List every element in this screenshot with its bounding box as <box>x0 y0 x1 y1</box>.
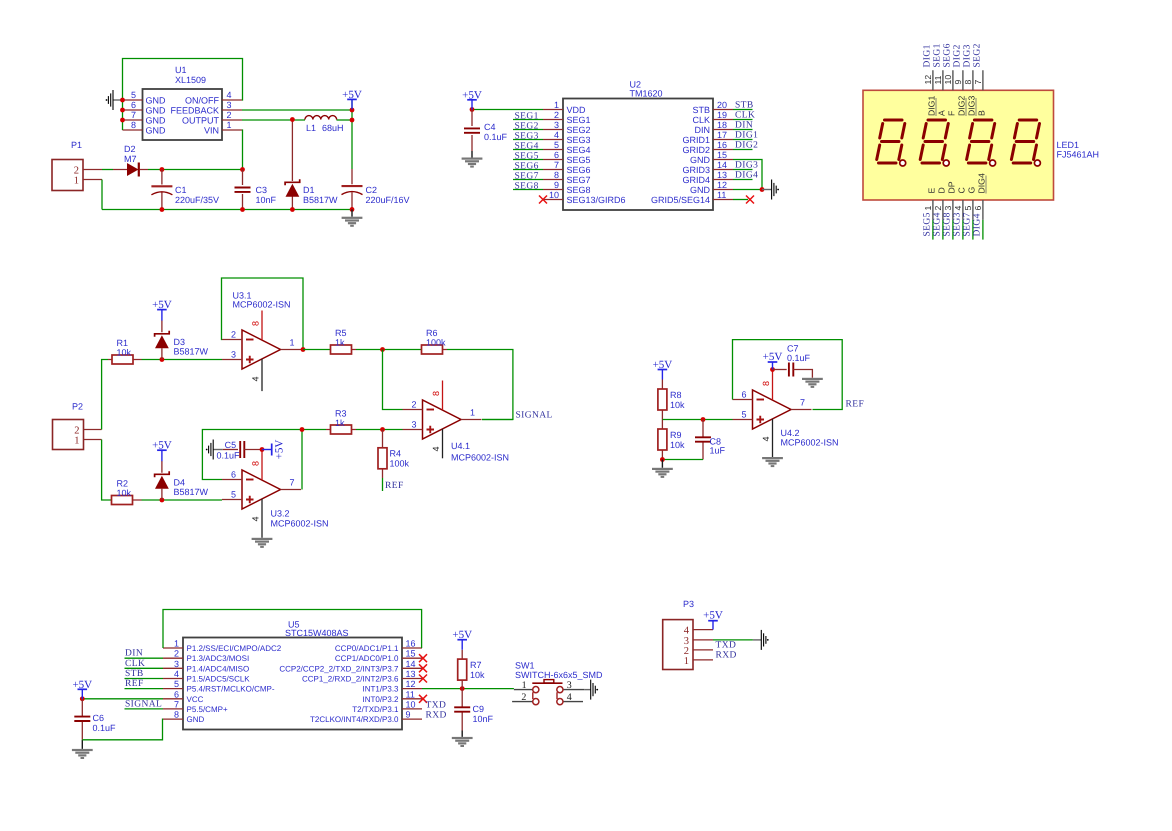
label U4.1 <box>451 441 509 463</box>
svg-text:P5.5/CMP+: P5.5/CMP+ <box>187 705 228 714</box>
svg-text:SEG5: SEG5 <box>567 155 591 165</box>
junction <box>701 417 706 422</box>
svg-text:D2: D2 <box>124 144 136 154</box>
svg-text:0.1uF: 0.1uF <box>93 723 117 733</box>
svg-text:6: 6 <box>554 150 559 160</box>
svg-text:STB: STB <box>735 101 754 111</box>
svg-text:1: 1 <box>554 100 559 110</box>
svg-text:4: 4 <box>174 669 179 679</box>
svg-text:12: 12 <box>717 180 727 190</box>
svg-text:SEG7: SEG7 <box>515 171 539 181</box>
svg-text:5: 5 <box>963 206 973 211</box>
svg-text:SEG1: SEG1 <box>567 115 591 125</box>
svg-text:10: 10 <box>406 699 416 709</box>
capacitor C5 0.1uF <box>217 440 263 460</box>
svg-text:T2CLKO/INT4/RXD/P3.0: T2CLKO/INT4/RXD/P3.0 <box>310 715 399 724</box>
svg-text:9: 9 <box>406 710 411 720</box>
wire net DIG4 <box>733 179 753 181</box>
power +5V at P3 pin4 <box>703 610 723 630</box>
wire net SEG3 <box>513 139 543 141</box>
svg-text:DIG3: DIG3 <box>967 96 977 116</box>
wire U4.2 feedback loop REF <box>733 340 843 410</box>
svg-text:DIG4: DIG4 <box>973 213 983 236</box>
wire P1.2 to D2 <box>102 169 113 171</box>
svg-text:2: 2 <box>174 649 179 659</box>
wire R5 to R6 <box>356 349 421 351</box>
svg-text:+5V: +5V <box>152 299 172 311</box>
resistor R3 1k <box>326 409 356 435</box>
no-connect U5 pin14 <box>419 664 427 672</box>
svg-text:10k: 10k <box>117 348 132 358</box>
svg-text:SEG2: SEG2 <box>567 125 591 135</box>
svg-text:GND: GND <box>690 185 711 195</box>
svg-text:GRID2: GRID2 <box>682 145 710 155</box>
svg-text:DP: DP <box>947 181 957 193</box>
svg-text:2: 2 <box>227 110 232 120</box>
junction <box>290 117 295 122</box>
svg-text:DIG2: DIG2 <box>953 44 963 67</box>
svg-text:+5V: +5V <box>342 89 362 101</box>
wire R1 to U3.1 +in <box>142 359 223 361</box>
svg-text:GND: GND <box>146 126 167 136</box>
connector P2 <box>53 402 102 450</box>
svg-text:B5817W: B5817W <box>174 487 209 497</box>
svg-text:DIN: DIN <box>125 649 143 659</box>
svg-text:SWITCH-6x6x5_SMD: SWITCH-6x6x5_SMD <box>515 670 603 680</box>
junction <box>760 187 765 192</box>
wire R3 to U4.1 +in <box>356 429 403 431</box>
svg-text:3: 3 <box>231 350 236 360</box>
svg-text:6: 6 <box>174 689 179 699</box>
svg-text:P2: P2 <box>72 402 83 412</box>
junction <box>120 108 125 113</box>
svg-text:+5V: +5V <box>763 351 783 363</box>
wire VIN down <box>241 130 244 170</box>
svg-text:3: 3 <box>227 100 232 110</box>
svg-text:DIG1: DIG1 <box>923 44 933 67</box>
svg-text:1k: 1k <box>335 418 345 428</box>
junction <box>160 498 165 503</box>
svg-text:P5.4/RST/MCLKO/CMP-: P5.4/RST/MCLKO/CMP- <box>187 685 275 694</box>
wire pin8 to +5V node <box>261 449 263 452</box>
svg-text:4: 4 <box>251 516 261 521</box>
wire net SEG4 <box>513 149 543 151</box>
svg-text:P1.5/ADC5/SCLK: P1.5/ADC5/SCLK <box>187 675 251 684</box>
svg-text:P1.2/SS/ECI/CMPO/ADC2: P1.2/SS/ECI/CMPO/ADC2 <box>187 644 282 653</box>
op-amp U4.2 MCP6002-ISN <box>733 371 812 458</box>
svg-text:6: 6 <box>973 206 983 211</box>
wire L1 to +5V rail <box>337 119 353 121</box>
svg-text:D1: D1 <box>303 185 315 195</box>
svg-text:SEG8: SEG8 <box>943 212 953 236</box>
capacitor C9 10nF <box>454 689 493 731</box>
ground at U1 pin5 <box>106 90 123 110</box>
svg-text:7: 7 <box>290 478 295 488</box>
ground below C6 <box>72 740 93 759</box>
svg-text:R7: R7 <box>470 660 482 670</box>
svg-text:SEG2: SEG2 <box>973 43 983 67</box>
svg-text:SEG5: SEG5 <box>923 212 933 236</box>
diode D1 B5817W (schottky) <box>285 120 338 210</box>
svg-text:U1: U1 <box>175 65 187 75</box>
svg-text:CCP0/ADC1/P1.1: CCP0/ADC1/P1.1 <box>335 644 399 653</box>
svg-text:12: 12 <box>406 679 416 689</box>
svg-text:C9: C9 <box>473 704 485 714</box>
power +5V at U5 VCC <box>72 679 92 700</box>
svg-text:C: C <box>957 187 967 193</box>
svg-text:GRID3: GRID3 <box>682 165 710 175</box>
svg-text:6: 6 <box>131 100 136 110</box>
wire net SEG8 <box>513 189 543 191</box>
junction <box>80 696 85 701</box>
svg-text:DIG3: DIG3 <box>963 44 973 67</box>
svg-text:DIG4: DIG4 <box>735 171 758 181</box>
no-connect U5 pin15 <box>419 654 427 662</box>
svg-text:3: 3 <box>411 420 416 430</box>
svg-text:7: 7 <box>973 80 983 85</box>
svg-text:CLK: CLK <box>692 115 710 125</box>
svg-text:SEG6: SEG6 <box>515 161 539 171</box>
svg-text:R1: R1 <box>117 338 129 348</box>
svg-text:11: 11 <box>406 689 415 699</box>
svg-text:VCC: VCC <box>187 695 204 704</box>
svg-text:SEG8: SEG8 <box>515 181 539 191</box>
svg-text:REF: REF <box>385 481 404 491</box>
wire U5 pin1 to pin16 loop <box>163 610 422 649</box>
resistor R9 10k <box>658 420 685 460</box>
svg-text:FEEDBACK: FEEDBACK <box>170 106 219 116</box>
label U3.1 <box>233 291 291 310</box>
label U4.2 <box>781 428 839 448</box>
wire R4 to REF <box>382 478 384 491</box>
wire net REF <box>125 688 164 690</box>
svg-text:R9: R9 <box>670 430 682 440</box>
svg-text:TXD: TXD <box>426 700 447 710</box>
wire U1 GND tie <box>122 100 124 130</box>
svg-text:10k: 10k <box>470 670 485 680</box>
capacitor C7 0.1uF <box>773 344 813 378</box>
svg-text:MCP6002-ISN: MCP6002-ISN <box>271 519 329 529</box>
svg-text:R4: R4 <box>390 449 402 459</box>
svg-text:GRID4: GRID4 <box>682 175 710 185</box>
svg-text:3: 3 <box>174 659 179 669</box>
svg-text:ON/OFF: ON/OFF <box>185 96 219 106</box>
svg-text:GND: GND <box>146 96 167 106</box>
svg-text:SEG3: SEG3 <box>515 131 539 141</box>
junction <box>240 167 245 172</box>
svg-text:R5: R5 <box>335 328 347 338</box>
svg-text:SEG4: SEG4 <box>515 141 539 151</box>
power +5V (supply output) <box>342 89 362 110</box>
capacitor C8 1uF <box>695 420 726 460</box>
svg-text:TXD: TXD <box>716 640 737 650</box>
svg-text:8: 8 <box>431 391 441 396</box>
svg-text:4: 4 <box>554 130 559 140</box>
resistor R4 100k <box>378 430 410 479</box>
ground at U2 GND <box>762 180 779 200</box>
svg-text:RXD: RXD <box>426 711 447 721</box>
svg-text:CCP2/CCP2_2/TXD_2/INT3/P3.7: CCP2/CCP2_2/TXD_2/INT3/P3.7 <box>279 664 399 673</box>
power +5V at U4.2 pin8 <box>763 351 783 370</box>
svg-text:8: 8 <box>251 461 261 466</box>
svg-text:1k: 1k <box>335 338 345 348</box>
svg-text:U4.2: U4.2 <box>781 428 800 438</box>
wire net SEG7 <box>513 179 543 181</box>
power +5V at R7 <box>452 629 472 650</box>
svg-text:2: 2 <box>231 330 236 340</box>
svg-text:SEG6: SEG6 <box>567 165 591 175</box>
wire FEEDBACK to +5V <box>242 109 352 111</box>
svg-text:1: 1 <box>74 176 79 187</box>
svg-text:TM1620: TM1620 <box>630 89 663 99</box>
svg-text:VDD: VDD <box>567 105 587 115</box>
svg-text:SEG1: SEG1 <box>515 111 539 121</box>
ground at C5 <box>206 440 223 460</box>
diode D4 B5817W <box>155 461 209 500</box>
svg-text:P1.4/ADC4/MISO: P1.4/ADC4/MISO <box>187 664 250 673</box>
svg-text:R8: R8 <box>670 390 682 400</box>
svg-text:1: 1 <box>923 206 933 211</box>
svg-text:8: 8 <box>131 120 136 130</box>
svg-text:68uH: 68uH <box>322 123 344 133</box>
svg-text:CLK: CLK <box>735 111 755 121</box>
svg-text:GND: GND <box>187 715 205 724</box>
inductor L1 68uH <box>305 116 344 133</box>
ground below C4 <box>462 151 483 168</box>
svg-text:+5V: +5V <box>72 679 92 691</box>
wire R9 bottom to C8 <box>662 459 703 461</box>
svg-text:OUTPUT: OUTPUT <box>182 116 220 126</box>
svg-text:11: 11 <box>933 75 943 84</box>
wire U3.2 out up <box>301 430 303 490</box>
wire U3.1 out to R5 <box>303 349 330 351</box>
junction <box>120 118 125 123</box>
svg-text:10nF: 10nF <box>473 714 494 724</box>
svg-text:19: 19 <box>717 110 727 120</box>
svg-text:DIN: DIN <box>695 125 711 135</box>
svg-text:INT1/P3.3: INT1/P3.3 <box>362 685 399 694</box>
svg-text:CLK: CLK <box>125 659 145 669</box>
svg-text:C3: C3 <box>256 185 268 195</box>
wire net SIGNAL <box>125 708 164 710</box>
svg-text:G: G <box>967 187 977 194</box>
wire bottom GND rail <box>102 209 352 211</box>
op-amp U3.2 MCP6002-ISN <box>222 451 301 538</box>
wire net SEG1 <box>513 119 543 121</box>
op U1 XL1509 regulator <box>123 65 243 140</box>
7-segment digit 1 of LED1 <box>877 120 906 166</box>
resistor R1 10k <box>108 338 142 364</box>
wire D2 to VIN node <box>148 169 243 171</box>
7-segment digit 4 of LED1 <box>1011 120 1040 166</box>
7-segment digit 3 of LED1 <box>967 120 996 166</box>
svg-text:C1: C1 <box>175 185 187 195</box>
svg-text:220uF/16V: 220uF/16V <box>366 195 410 205</box>
svg-text:MCP6002-ISN: MCP6002-ISN <box>781 438 839 448</box>
ground at U3.2 pin4 <box>252 538 273 548</box>
junction <box>260 447 265 452</box>
capacitor C6 0.1uF <box>74 699 116 740</box>
svg-text:FJ5461AH: FJ5461AH <box>1057 150 1100 160</box>
svg-text:7: 7 <box>174 699 179 709</box>
svg-text:DIG1: DIG1 <box>927 96 937 116</box>
svg-text:+5V: +5V <box>152 440 172 452</box>
svg-text:GND: GND <box>146 116 167 126</box>
power +5V (rotated) at U3.2 pin8 <box>262 440 285 460</box>
wire VDD to +5V <box>472 109 543 111</box>
svg-text:R6: R6 <box>426 328 438 338</box>
svg-text:DIG2: DIG2 <box>957 96 967 116</box>
svg-text:1uF: 1uF <box>710 446 726 456</box>
ground at P3 pin3 <box>753 630 769 650</box>
capacitor C3 10nF <box>235 170 277 210</box>
resistor R6 100k <box>421 328 447 354</box>
svg-text:10: 10 <box>549 190 559 200</box>
svg-text:1: 1 <box>522 680 527 691</box>
wire net DIN <box>125 657 164 659</box>
wire U3.1 feedback loop <box>222 278 304 350</box>
wire net SEG3 (LED bottom) <box>962 220 964 240</box>
svg-text:15: 15 <box>406 649 416 659</box>
wire net CLK <box>733 119 753 121</box>
wire U2 GND pin12 <box>733 189 762 191</box>
svg-text:LED1: LED1 <box>1057 140 1080 150</box>
svg-text:GRID1: GRID1 <box>682 135 710 145</box>
wire U2 pin11 <box>733 199 748 201</box>
svg-text:CCP1_2/RXD_2/INT2/P3.6: CCP1_2/RXD_2/INT2/P3.6 <box>302 675 399 684</box>
svg-text:SEG3: SEG3 <box>567 135 591 145</box>
svg-text:L1: L1 <box>306 123 316 133</box>
wire net DIG1 <box>733 139 753 141</box>
svg-text:18: 18 <box>717 120 727 130</box>
wire net STB <box>125 678 164 680</box>
capacitor C4 0.1uF <box>464 110 508 152</box>
svg-text:8: 8 <box>963 80 973 85</box>
svg-text:+5V: +5V <box>653 359 673 371</box>
svg-text:1: 1 <box>684 656 689 667</box>
wire U2 GND pin15 <box>733 160 762 190</box>
svg-text:STC15W408AS: STC15W408AS <box>285 628 349 638</box>
svg-text:SEG4: SEG4 <box>567 145 591 155</box>
wire net SEG6 <box>513 169 543 171</box>
connector P3 <box>663 599 713 670</box>
no-connect U5 pin11 <box>419 695 427 703</box>
svg-text:MCP6002-ISN: MCP6002-ISN <box>233 300 291 310</box>
junction <box>770 367 775 372</box>
svg-text:16: 16 <box>406 639 416 649</box>
label U3.2 <box>271 509 329 529</box>
diode D2 M7 <box>113 144 148 177</box>
svg-text:6: 6 <box>231 470 236 480</box>
svg-text:1: 1 <box>227 120 232 130</box>
svg-text:4: 4 <box>761 436 771 441</box>
junction <box>160 357 165 362</box>
svg-text:5: 5 <box>741 410 746 420</box>
wire net SEG7 (LED bottom) <box>972 220 974 240</box>
junction <box>300 427 305 432</box>
svg-text:+5V: +5V <box>462 89 482 101</box>
svg-text:C2: C2 <box>366 185 378 195</box>
junction <box>160 167 165 172</box>
svg-text:D4: D4 <box>174 478 186 488</box>
svg-text:XL1509: XL1509 <box>175 75 206 85</box>
no-connect U2 pin10 <box>539 196 547 204</box>
svg-text:SEG7: SEG7 <box>567 175 591 185</box>
ground at C7 <box>802 378 823 388</box>
svg-text:0.1uF: 0.1uF <box>217 450 241 460</box>
ground below C2 <box>342 209 363 226</box>
junction <box>350 108 355 113</box>
svg-text:9: 9 <box>953 80 963 85</box>
svg-text:DIG2: DIG2 <box>735 141 758 151</box>
svg-text:13: 13 <box>717 170 727 180</box>
svg-text:SEG1: SEG1 <box>933 43 943 67</box>
wire net SEG4 (LED bottom) <box>942 220 944 240</box>
ground at U4.2 pin4 <box>762 457 783 467</box>
svg-text:GND: GND <box>690 155 711 165</box>
svg-text:R3: R3 <box>335 409 347 419</box>
svg-text:GRID5/SEG14: GRID5/SEG14 <box>651 195 710 205</box>
svg-text:U4.1: U4.1 <box>451 441 470 451</box>
wire net SEG5 <box>513 159 543 161</box>
svg-text:20: 20 <box>717 100 727 110</box>
svg-text:5: 5 <box>231 490 236 500</box>
wire net CLK <box>125 667 164 669</box>
op-amp U3.1 MCP6002-ISN <box>222 311 301 392</box>
svg-text:14: 14 <box>406 659 416 669</box>
svg-text:F: F <box>947 111 957 116</box>
svg-text:C5: C5 <box>225 440 237 450</box>
power +5V at D4 <box>152 440 172 462</box>
svg-text:E: E <box>927 188 937 194</box>
junction <box>350 207 355 212</box>
svg-text:10k: 10k <box>117 488 132 498</box>
svg-text:INT0/P3.2: INT0/P3.2 <box>362 695 399 704</box>
svg-text:1: 1 <box>290 338 295 348</box>
svg-text:SIGNAL: SIGNAL <box>125 699 162 709</box>
wire P2.1 down to R2 <box>102 440 111 501</box>
power +5V at U2 <box>462 89 482 110</box>
svg-text:12: 12 <box>923 75 933 85</box>
resistor R5 1k <box>330 328 356 354</box>
junction <box>301 347 306 352</box>
svg-text:10nF: 10nF <box>256 195 277 205</box>
ground at SW1 pin3 <box>584 680 598 700</box>
wire VCC to +5V <box>82 698 163 700</box>
no-connect U5 pin13 <box>419 675 427 683</box>
svg-text:7: 7 <box>800 398 805 408</box>
wire net SEG2 <box>513 129 543 131</box>
svg-text:3: 3 <box>943 206 953 211</box>
svg-text:D3: D3 <box>174 337 186 347</box>
capacitor C2 220uF/16V <box>342 169 410 209</box>
svg-text:STB: STB <box>125 669 144 679</box>
svg-text:2: 2 <box>521 692 526 703</box>
diode D3 B5817W <box>155 320 209 359</box>
resistor R8 10k <box>658 380 685 420</box>
svg-text:13: 13 <box>406 669 416 679</box>
switch SW1 SWITCH-6x6x5_SMD <box>512 661 603 705</box>
wire net SEG8 (LED bottom) <box>952 220 954 240</box>
svg-text:CCP1/ADC0/P1.0: CCP1/ADC0/P1.0 <box>335 654 399 663</box>
svg-text:SW1: SW1 <box>515 661 535 671</box>
svg-text:17: 17 <box>717 130 727 140</box>
svg-text:SEG7: SEG7 <box>963 212 973 236</box>
svg-text:2: 2 <box>933 206 943 211</box>
svg-text:2: 2 <box>554 110 559 120</box>
ground below R9 <box>652 460 673 478</box>
svg-text:B5817W: B5817W <box>303 195 338 205</box>
